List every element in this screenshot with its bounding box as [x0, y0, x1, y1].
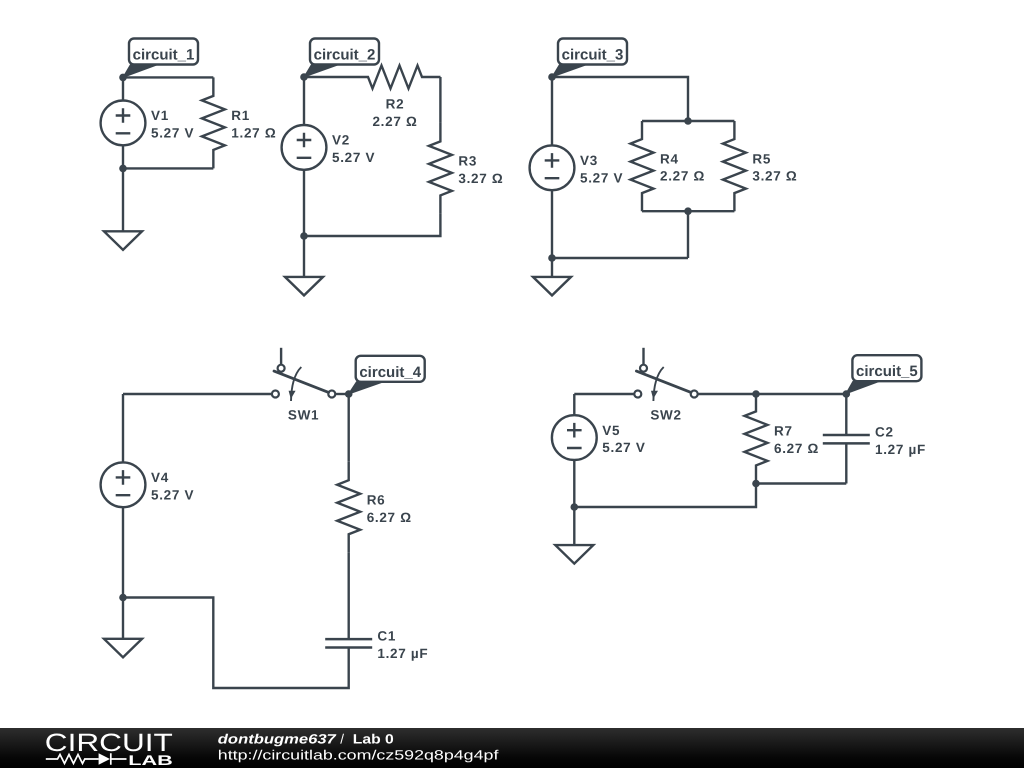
ground circuit 3 — [533, 277, 571, 296]
svg-text:R3: R3 — [458, 154, 477, 169]
junction node top circuit 2 — [300, 73, 308, 81]
junction node bottom circuit 1 — [119, 165, 127, 173]
junction node bottom-left circuit 5 — [571, 503, 579, 511]
svg-text:6.27 Ω: 6.27 Ω — [367, 510, 412, 525]
svg-text:R1: R1 — [231, 108, 250, 123]
svg-text:C1: C1 — [377, 629, 396, 644]
resistor R1 — [202, 77, 225, 168]
svg-text:circuit_5: circuit_5 — [856, 363, 918, 380]
wire switch to node circuit 4 — [335, 393, 348, 395]
resistor R2 — [350, 66, 441, 89]
svg-text:R6: R6 — [367, 492, 386, 507]
CircuitLab logo resistor-diode line — [46, 755, 99, 764]
svg-text:2.27 Ω: 2.27 Ω — [372, 114, 417, 129]
voltage source V2 — [303, 77, 305, 236]
wire top rail circuit 4 — [123, 393, 272, 395]
ground circuit 4 — [104, 639, 142, 658]
wire ground lead circuit 3 — [551, 258, 553, 277]
junction node top-left circuit 3 — [548, 73, 556, 81]
svg-text:3.27 Ω: 3.27 Ω — [458, 171, 503, 186]
wire top rail circuit 1 — [123, 76, 213, 78]
wire C1 bottom return path circuit 4 — [123, 598, 349, 689]
ground circuit 5 — [555, 545, 593, 564]
svg-text:circuit_2: circuit_2 — [314, 47, 376, 64]
svg-text:Lab 0: Lab 0 — [353, 731, 394, 746]
footer bar — [0, 728, 1024, 768]
wire top rail circuit 3 — [552, 77, 688, 121]
wire right rail bottom circuit 2 — [304, 214, 440, 236]
svg-text:1.27 Ω: 1.27 Ω — [231, 126, 276, 141]
wire bottom bus circuit 5 — [756, 482, 846, 484]
switch SW2 — [642, 348, 644, 365]
svg-text:circuit_4: circuit_4 — [359, 364, 421, 381]
voltage source V4 — [122, 394, 124, 598]
junction node top circuit 1 — [119, 74, 127, 82]
switch SW1 — [280, 348, 282, 365]
voltage source V1 — [122, 77, 124, 168]
callout circuit_5 — [846, 381, 880, 394]
resistor R3 — [429, 123, 452, 214]
wire ground lead circuit 1 — [122, 168, 124, 231]
svg-text:C2: C2 — [875, 424, 894, 439]
wire ground lead circuit 4 — [122, 598, 124, 639]
wire top rail right circuit 5 — [698, 393, 847, 395]
svg-text:R7: R7 — [774, 424, 793, 439]
junction node bottom-left circuit 4 — [119, 594, 127, 602]
junction node bottom circuit 2 — [300, 232, 308, 240]
wire node to R6 circuit 4 — [348, 416, 350, 462]
junction node bottom-left circuit 3 — [548, 254, 556, 262]
wire bottom rail circuit 3 — [552, 211, 688, 258]
svg-text:LAB: LAB — [128, 752, 173, 768]
svg-text:5.27 V: 5.27 V — [151, 487, 194, 502]
capacitor C1 — [325, 639, 372, 647]
svg-text:6.27 Ω: 6.27 Ω — [774, 441, 819, 456]
voltage source V5 — [573, 394, 575, 507]
svg-text:V3: V3 — [580, 153, 598, 168]
voltage source V3 — [551, 77, 553, 258]
callout circuit_3 — [552, 65, 587, 78]
junction node bus top circuit 3 — [684, 117, 692, 125]
wire parallel top bus circuit 3 — [642, 120, 734, 122]
resistor R5 — [723, 121, 746, 211]
wire R6 to C1 circuit 4 — [348, 553, 350, 639]
svg-text:1.27 µF: 1.27 µF — [377, 646, 428, 661]
wire ground lead circuit 2 — [303, 236, 305, 277]
svg-text:V1: V1 — [151, 108, 169, 123]
svg-text:5.27 V: 5.27 V — [602, 440, 645, 455]
svg-text:5.27 V: 5.27 V — [580, 170, 623, 185]
wire top rail left circuit 5 — [574, 393, 634, 395]
svg-text:R4: R4 — [660, 151, 679, 166]
callout circuit_1 — [123, 65, 158, 78]
callout circuit_2 — [304, 65, 339, 78]
wire bottom rail circuit 1 — [123, 167, 213, 169]
svg-text:3.27 Ω: 3.27 Ω — [752, 169, 797, 184]
svg-text:V4: V4 — [151, 470, 169, 485]
svg-text:1.27 µF: 1.27 µF — [875, 442, 926, 457]
svg-text:SW2: SW2 — [650, 407, 681, 422]
svg-text:circuit_1: circuit_1 — [133, 47, 195, 64]
wire top rail circuit 2 — [304, 76, 350, 78]
wire right rail top circuit 2 — [439, 77, 441, 123]
svg-text:V2: V2 — [332, 133, 350, 148]
resistor R6 — [337, 462, 360, 553]
callout circuit_4 — [348, 382, 383, 394]
svg-text:2.27 Ω: 2.27 Ω — [660, 169, 705, 184]
svg-text:5.27 V: 5.27 V — [151, 126, 194, 141]
junction node C2 top circuit 5 — [843, 390, 851, 398]
svg-text:http://circuitlab.com/cz592q8p: http://circuitlab.com/cz592q8p4g4pf — [218, 748, 499, 763]
wire parallel bottom bus circuit 3 — [642, 210, 734, 212]
svg-text:dontbugme637: dontbugme637 — [218, 731, 338, 746]
junction node bus circuit 5 — [752, 480, 760, 488]
resistor R7 — [745, 393, 768, 483]
capacitor C2 — [845, 394, 847, 435]
svg-text:R2: R2 — [386, 97, 405, 112]
wire ground lead circuit 5 — [573, 507, 575, 545]
wire right rail circuit 4 — [348, 394, 350, 416]
svg-text:5.27 V: 5.27 V — [332, 150, 375, 165]
wire C2 bottom lead circuit 5 — [845, 443, 847, 483]
wire bottom rail circuit 5 — [574, 484, 756, 508]
svg-text:circuit_3: circuit_3 — [562, 47, 624, 64]
junction node bus bottom circuit 3 — [684, 207, 692, 215]
resistor R4 — [631, 121, 654, 211]
svg-text:SW1: SW1 — [288, 407, 319, 422]
junction node R7 top circuit 5 — [752, 390, 760, 398]
svg-text:/: / — [340, 731, 344, 746]
junction node switch-R6 circuit 4 — [345, 390, 353, 398]
svg-text:V5: V5 — [602, 423, 620, 438]
ground circuit 2 — [285, 277, 323, 296]
ground circuit 1 — [104, 231, 142, 250]
svg-text:R5: R5 — [752, 151, 771, 166]
